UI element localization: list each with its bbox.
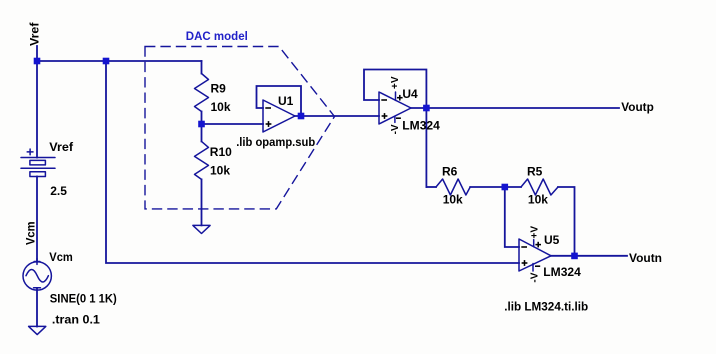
op-amp U5	[519, 239, 551, 271]
op-amp U1	[263, 100, 295, 132]
battery plus marker	[27, 151, 33, 153]
wire node to U1 plus input	[202, 123, 264, 125]
node U5 output	[571, 253, 578, 260]
dashed DAC model boundary	[145, 47, 335, 209]
svg-text:Voutn: Voutn	[629, 251, 662, 265]
sine plus marker	[34, 261, 40, 263]
U4 minus marker	[381, 99, 387, 101]
svg-text:2.5: 2.5	[50, 184, 67, 198]
U5 V+ pin stub	[533, 240, 535, 247]
op-amp U4	[379, 92, 411, 124]
svg-text:U5: U5	[544, 233, 560, 247]
svg-text:.lib LM324.ti.lib: .lib LM324.ti.lib	[504, 300, 588, 314]
sine wave inside Vcm	[26, 269, 48, 282]
input/output markers	[265, 95, 541, 266]
resistor R6	[436, 179, 470, 195]
U4 plus marker	[382, 115, 388, 117]
ground under Vcm	[29, 326, 46, 334]
resistor R10	[195, 141, 209, 179]
U4 bottom power minus marker	[396, 117, 401, 119]
ground under R10	[193, 225, 210, 233]
svg-text:LM324: LM324	[543, 265, 581, 279]
wire R5 right lead down to U5 output node	[558, 187, 575, 256]
U5 top power plus marker	[535, 244, 541, 246]
svg-text:10k: 10k	[528, 192, 548, 206]
svg-text:R5: R5	[527, 165, 543, 179]
U5 minus marker	[521, 246, 527, 248]
node squares	[34, 58, 578, 260]
svg-text:-V: -V	[529, 272, 540, 282]
wire U4 node down to R6	[425, 108, 427, 187]
node R6 R5 junction	[502, 184, 509, 191]
battery Vref plates	[21, 157, 55, 159]
U1 plus marker	[266, 123, 272, 125]
resistor R9	[195, 74, 209, 112]
svg-text:10k: 10k	[211, 100, 231, 114]
wire mid node down to U5 minus input	[505, 187, 519, 247]
svg-text:-V: -V	[390, 124, 401, 134]
wire mid node to R5	[505, 186, 521, 188]
svg-text:Vref: Vref	[27, 21, 41, 46]
U5 V- pin stub	[532, 264, 534, 272]
svg-text:SINE(0 1 1K): SINE(0 1 1K)	[50, 291, 117, 305]
wire sine to ground	[36, 289, 38, 327]
svg-text:U1: U1	[278, 94, 294, 108]
U4 V- pin stub	[394, 116, 396, 122]
svg-text:10k: 10k	[210, 163, 230, 177]
U1 minus marker	[265, 107, 271, 109]
wire second vertical and long bottom run to U5 plus input	[106, 61, 519, 263]
wire left vertical to battery	[36, 61, 38, 158]
svg-text:LM324: LM324	[402, 119, 440, 133]
wire R6 to mid node	[470, 186, 505, 188]
U5 plus marker	[522, 262, 528, 264]
wire Vref label stub	[36, 46, 38, 61]
wire U4 output to Voutp	[411, 107, 619, 109]
svg-text:R6: R6	[442, 165, 458, 179]
U4 V+ pin stub	[395, 92, 397, 100]
svg-text:Vcm: Vcm	[23, 222, 37, 246]
svg-text:R9: R9	[211, 81, 227, 95]
svg-text:U4: U4	[402, 87, 418, 101]
node second branch	[103, 58, 110, 65]
wire node to R10	[201, 124, 203, 141]
svg-text:.tran 0.1: .tran 0.1	[52, 312, 100, 326]
resistor R5	[521, 179, 558, 195]
wire U1 output to U4 plus input	[295, 115, 379, 117]
svg-text:R10: R10	[210, 145, 232, 159]
svg-text:.lib opamp.sub: .lib opamp.sub	[236, 135, 315, 149]
svg-text:Voutp: Voutp	[621, 100, 654, 114]
node U4 output	[423, 105, 430, 112]
svg-text:Vref: Vref	[49, 140, 74, 154]
sine source Vcm circle	[23, 262, 51, 290]
node U1 output	[298, 113, 305, 120]
wire battery to sine	[36, 177, 38, 262]
wire U1 feedback loop	[257, 86, 302, 116]
U4 top power plus marker	[397, 97, 403, 99]
svg-text:DAC model: DAC model	[186, 29, 248, 43]
wire R6 lead left	[426, 186, 436, 188]
wire R10 to ground	[201, 179, 203, 225]
wire U5 output to Voutn	[551, 255, 627, 257]
svg-text:+V: +V	[530, 226, 541, 239]
svg-text:10k: 10k	[443, 192, 463, 206]
wire U4 feedback loop	[364, 70, 426, 109]
svg-text:+V: +V	[390, 76, 401, 89]
U5 bottom power minus marker	[535, 265, 540, 267]
sine minus marker	[34, 287, 41, 289]
wire R9 to node	[201, 112, 203, 125]
wire top horizontal	[37, 60, 202, 62]
svg-text:Vcm: Vcm	[49, 250, 73, 264]
wire R9 branch top	[201, 61, 203, 74]
node Vref top	[34, 58, 41, 65]
node R9 R10 junction	[198, 121, 205, 128]
